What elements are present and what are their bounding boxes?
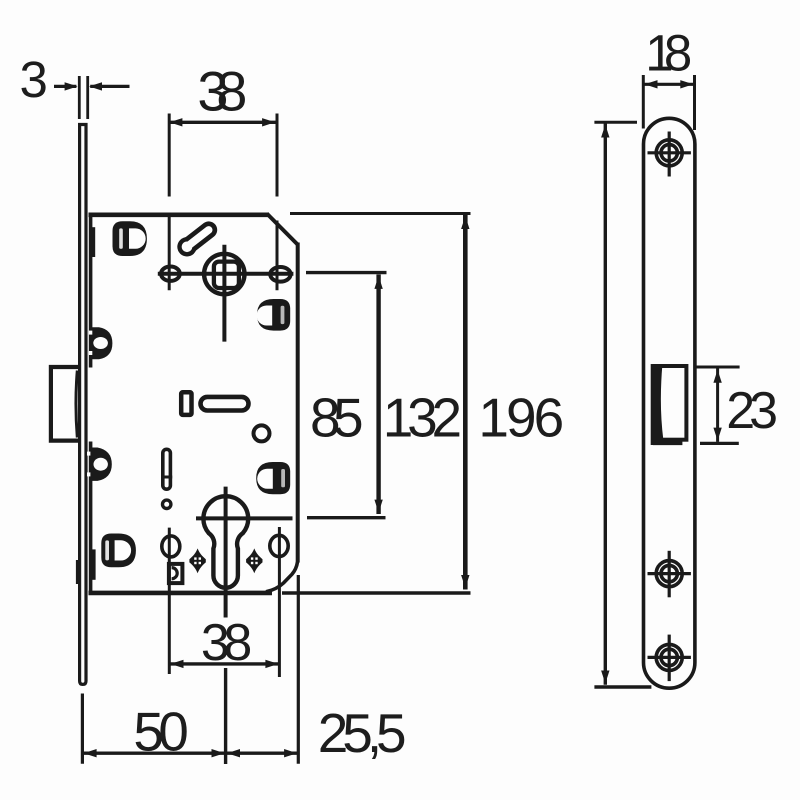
svg-text:38: 38	[201, 614, 253, 672]
svg-text:25,5: 25,5	[318, 702, 407, 764]
svg-text:132: 132	[383, 387, 462, 449]
svg-text:85: 85	[310, 387, 364, 449]
svg-text:3: 3	[20, 51, 48, 108]
svg-text:23: 23	[726, 382, 778, 440]
svg-text:196: 196	[478, 387, 564, 449]
svg-text:50: 50	[133, 700, 188, 762]
svg-text:18: 18	[645, 24, 692, 81]
svg-text:38: 38	[197, 59, 247, 122]
